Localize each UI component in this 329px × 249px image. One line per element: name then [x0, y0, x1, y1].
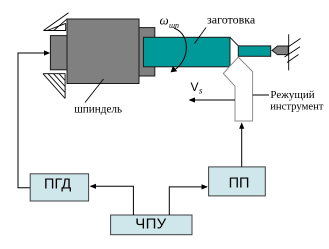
- svg-text:инструмент: инструмент: [270, 100, 324, 112]
- svg-text:ПГД: ПГД: [44, 176, 71, 192]
- svg-text:ПП: ПП: [229, 176, 250, 192]
- svg-text:шпиндель: шпиндель: [74, 103, 122, 115]
- svg-text:заготовка: заготовка: [207, 13, 256, 27]
- svg-text:V: V: [191, 80, 199, 94]
- svg-text:шп: шп: [169, 21, 179, 30]
- svg-text:s: s: [199, 86, 203, 96]
- svg-text:Режущий: Режущий: [270, 89, 314, 101]
- svg-text:ω: ω: [160, 12, 169, 27]
- svg-text:ЧПУ: ЧПУ: [135, 215, 166, 232]
